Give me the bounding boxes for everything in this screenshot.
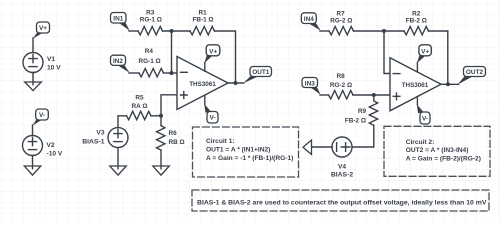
output label OUT2: [458, 67, 486, 85]
input label IN2: [111, 55, 130, 72]
wire: [215, 31, 236, 83]
wire: [429, 31, 448, 84]
power label V- (left supply): [32, 109, 48, 126]
svg-text:OUT2: OUT2: [466, 69, 484, 76]
value label V4 BIAS-2: [331, 163, 354, 178]
junction: [159, 114, 163, 118]
resistor R6: [157, 126, 165, 150]
voltage source V4: [332, 137, 352, 157]
annotation box note: [192, 190, 489, 211]
value label R7 RG-2 Ω: [330, 10, 352, 24]
junction: [234, 81, 238, 85]
value label R4 RG-1 Ω: [139, 48, 161, 65]
svg-text:V-: V-: [39, 112, 45, 119]
wire: [441, 83, 459, 85]
svg-text:OUT1: OUT1: [252, 69, 270, 76]
value label R9 FB-2 Ω: [345, 108, 367, 124]
power label V- (U2): [417, 97, 430, 124]
wire: [117, 148, 119, 169]
svg-text:R9: R9: [358, 108, 367, 115]
annotation box Circuit 2: [384, 126, 490, 176]
ground: [110, 166, 127, 175]
svg-text:IN3: IN3: [305, 80, 315, 87]
resistor R9: [369, 101, 377, 126]
junction node A: [170, 29, 174, 33]
junction: [372, 93, 376, 97]
svg-text:RG-2 Ω: RG-2 Ω: [330, 82, 352, 89]
value label R1 FB-1 Ω: [192, 9, 213, 23]
wire: [32, 72, 34, 84]
svg-text:BIAS-2: BIAS-2: [331, 171, 354, 178]
power label V- (U1): [204, 96, 218, 123]
text note: [197, 199, 487, 206]
svg-text:BIAS-1: BIAS-1: [82, 139, 105, 146]
output label OUT1: [243, 67, 272, 84]
wire: [312, 146, 333, 148]
svg-text:A = Gain = -1 * (FB-1)/(RG-1): A = Gain = -1 * (FB-1)/(RG-1): [206, 155, 293, 162]
resistor R3: [138, 27, 163, 35]
wire: [32, 125, 34, 136]
svg-text:RG-1 Ω: RG-1 Ω: [139, 58, 161, 65]
svg-text:R6: R6: [169, 130, 178, 137]
wire: [352, 95, 374, 147]
value label V2 -10 V: [47, 142, 63, 158]
svg-text:V4: V4: [338, 163, 346, 170]
svg-text:FB-2 Ω: FB-2 Ω: [406, 18, 427, 25]
svg-text:V-: V-: [422, 115, 428, 122]
svg-text:-10 V: -10 V: [47, 151, 63, 158]
wire: [354, 30, 405, 32]
svg-text:10 V: 10 V: [47, 65, 61, 72]
value label V3 BIAS-1: [82, 129, 105, 145]
wire: [32, 38, 34, 53]
power label V+ (left supply): [33, 22, 50, 39]
svg-text:R8: R8: [337, 73, 346, 80]
svg-text:Circuit 1:: Circuit 1:: [206, 138, 235, 145]
svg-text:R1: R1: [199, 9, 208, 16]
wire: [151, 115, 161, 117]
input label IN1: [111, 13, 130, 31]
wire: [320, 30, 329, 32]
svg-text:R5: R5: [135, 95, 144, 102]
svg-text:THS3061: THS3061: [189, 81, 216, 88]
svg-text:R4: R4: [145, 48, 154, 55]
svg-text:RG-2 Ω: RG-2 Ω: [330, 18, 352, 25]
svg-text:V2: V2: [47, 142, 55, 149]
svg-text:IN4: IN4: [304, 16, 314, 23]
ground: [24, 166, 41, 175]
wire: [118, 116, 127, 128]
svg-text:V+: V+: [209, 48, 217, 55]
svg-text:R7: R7: [337, 10, 346, 17]
svg-text:OUT2 = A * (IN3-IN4): OUT2 = A * (IN3-IN4): [406, 147, 469, 154]
wire: [228, 82, 244, 84]
wire: [164, 72, 178, 74]
wire: [160, 150, 162, 169]
resistor R2: [404, 27, 429, 35]
voltage source V2: [23, 136, 43, 156]
input label IN3: [302, 78, 321, 95]
resistor R8: [329, 91, 354, 99]
svg-text:R2: R2: [412, 10, 421, 17]
wire node line: [171, 31, 173, 73]
wire: [163, 30, 191, 32]
power label V+ (U2): [417, 45, 432, 72]
wire: [353, 94, 390, 96]
resistor R7: [329, 27, 354, 35]
wire: [32, 155, 34, 168]
text Circuit 1: [206, 138, 293, 162]
value label R2 FB-2 Ω: [406, 10, 427, 24]
svg-text:V1: V1: [47, 56, 55, 63]
svg-text:V3: V3: [96, 129, 104, 136]
svg-text:Circuit 2:: Circuit 2:: [406, 139, 435, 146]
svg-text:V+: V+: [39, 25, 47, 32]
wire: [161, 95, 177, 116]
wire: [320, 94, 329, 96]
power label V+ (U1): [204, 45, 220, 72]
wire node line: [384, 31, 390, 74]
op-amp U1 THS3061: [177, 57, 228, 110]
text Circuit 2: [406, 139, 481, 163]
wire: [160, 116, 162, 126]
wire: [129, 72, 139, 74]
resistor R1: [190, 27, 215, 35]
input label IN4: [301, 13, 321, 31]
svg-text:IN2: IN2: [113, 58, 123, 65]
value label V1 10 V: [47, 56, 61, 72]
svg-text:RG-1 Ω: RG-1 Ω: [140, 17, 162, 24]
wire: [129, 30, 138, 32]
junction: [170, 71, 174, 75]
svg-text:V+: V+: [421, 48, 429, 55]
svg-text:RA Ω: RA Ω: [132, 103, 148, 110]
value label R8 RG-2 Ω: [330, 73, 352, 89]
svg-text:THS3061: THS3061: [402, 82, 429, 89]
annotation box Circuit 1: [193, 127, 299, 177]
op-amp U2 THS3061: [390, 58, 441, 111]
junction: [446, 82, 450, 86]
svg-text:BIAS-1 & BIAS-2 are used to co: BIAS-1 & BIAS-2 are used to counteract t…: [197, 199, 487, 206]
arrow: [303, 140, 312, 155]
svg-text:A = Gain = (FB-2)/(RG-2): A = Gain = (FB-2)/(RG-2): [406, 155, 481, 162]
junction: [382, 29, 386, 33]
value label R3 RG-1 Ω: [140, 9, 162, 23]
resistor R5: [127, 111, 152, 119]
svg-text:FB-2 Ω: FB-2 Ω: [345, 117, 366, 124]
svg-text:V-: V-: [209, 115, 215, 122]
voltage source V3: [108, 128, 128, 148]
svg-text:FB-1 Ω: FB-1 Ω: [192, 17, 213, 24]
ground: [25, 82, 42, 91]
value label R6 RB Ω: [169, 130, 185, 146]
svg-text:RB Ω: RB Ω: [169, 139, 185, 146]
value label R5 RA Ω: [132, 95, 148, 111]
ground: [153, 166, 170, 175]
svg-text:OUT1 = A * (IN1+IN2): OUT1 = A * (IN1+IN2): [206, 146, 270, 153]
voltage source V1: [23, 53, 43, 73]
svg-text:IN1: IN1: [113, 16, 123, 23]
resistor R4: [139, 69, 164, 77]
svg-text:R3: R3: [146, 9, 155, 16]
